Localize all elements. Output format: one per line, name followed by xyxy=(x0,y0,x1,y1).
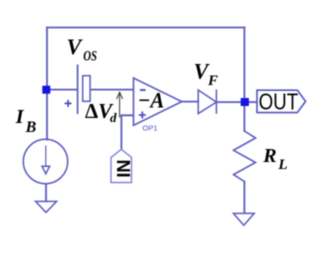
svg-text:L: L xyxy=(277,157,287,173)
svg-text:V: V xyxy=(67,34,84,59)
svg-text:OUT: OUT xyxy=(259,89,299,115)
svg-text:F: F xyxy=(207,73,218,89)
svg-text:OS: OS xyxy=(83,49,97,65)
svg-text:I: I xyxy=(15,106,25,128)
svg-text:d: d xyxy=(110,110,117,125)
svg-text:IN: IN xyxy=(114,160,134,178)
svg-text:OP1: OP1 xyxy=(143,123,158,132)
svg-text:−A: −A xyxy=(138,88,165,113)
svg-text:B: B xyxy=(25,119,37,136)
svg-text:R: R xyxy=(262,145,276,167)
